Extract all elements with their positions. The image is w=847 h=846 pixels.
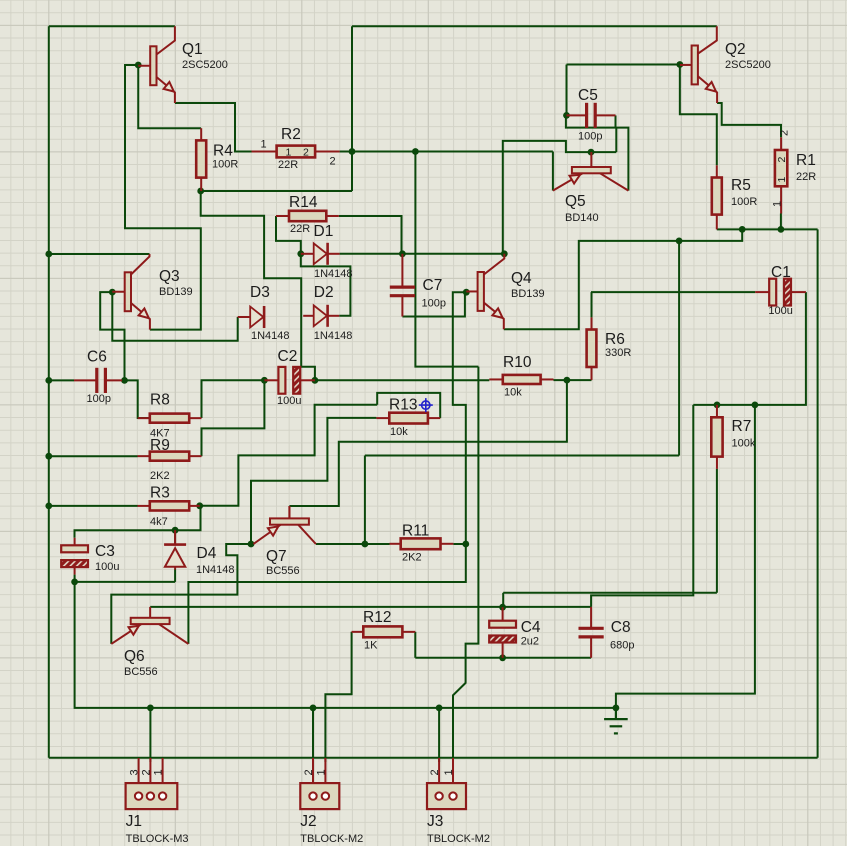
resistor R7 body bbox=[711, 417, 722, 456]
wire right rail bbox=[817, 229, 819, 757]
svg-text:R5: R5 bbox=[731, 177, 751, 194]
wire C1-right down bbox=[755, 292, 806, 405]
connector J2 pin 1 circle bbox=[322, 792, 329, 799]
diode D2 pin2 bbox=[328, 315, 340, 317]
svg-text:Q3: Q3 bbox=[159, 268, 180, 285]
node C1 right bbox=[752, 402, 759, 409]
wire top rail right bbox=[352, 25, 717, 27]
resistor R14 pin2 bbox=[326, 215, 339, 217]
svg-text:TBLOCK-M3: TBLOCK-M3 bbox=[126, 833, 189, 845]
capacitor C1 pin1 bbox=[755, 291, 769, 293]
transistor Q4 collector lead bbox=[484, 254, 504, 275]
svg-text:R10: R10 bbox=[503, 354, 532, 371]
resistor R11 pin2 bbox=[441, 543, 454, 545]
wire output to Q4-emitter bbox=[504, 229, 742, 329]
svg-text:TBLOCK-M2: TBLOCK-M2 bbox=[427, 833, 490, 845]
node rail Q3 bbox=[45, 251, 52, 258]
svg-text:1: 1 bbox=[153, 769, 165, 775]
svg-text:2u2: 2u2 bbox=[521, 636, 539, 648]
wire Q7-emitter stair to R13-left bbox=[251, 418, 376, 544]
wire R13-right loop bbox=[377, 393, 440, 418]
wire L3 right R7-bottom bbox=[503, 592, 717, 594]
capacitor C8 pin1 bbox=[590, 607, 592, 628]
connector J3 pin 1 circle bbox=[449, 792, 456, 799]
svg-text:BD139: BD139 bbox=[159, 286, 193, 298]
diode D4 pin2 bbox=[174, 567, 176, 570]
wire R4-bottom to x352 bbox=[201, 190, 352, 192]
transistor Q5 emitter lead bbox=[553, 173, 583, 190]
wire V2 to J3-pin1 bbox=[453, 367, 478, 758]
component origin marker R13 bbox=[419, 398, 433, 412]
node C5 left bbox=[563, 112, 570, 119]
svg-text:Q6: Q6 bbox=[124, 648, 145, 665]
resistor R5 pin2 bbox=[716, 215, 718, 230]
svg-text:100u: 100u bbox=[95, 561, 119, 573]
capacitor C4 pin2 bbox=[502, 643, 504, 658]
diode D2 body bbox=[314, 305, 327, 326]
svg-text:100R: 100R bbox=[212, 159, 238, 171]
svg-text:D3: D3 bbox=[250, 284, 270, 301]
svg-text:Q4: Q4 bbox=[511, 270, 532, 287]
svg-text:100u: 100u bbox=[768, 305, 792, 317]
svg-text:Q5: Q5 bbox=[565, 193, 586, 210]
wire R14-right to D1-line bbox=[339, 216, 402, 254]
node rail R9 bbox=[45, 453, 52, 460]
transistor Q1 collector lead bbox=[157, 26, 175, 54]
capacitor C7 pin2 bbox=[401, 296, 403, 317]
svg-text:100R: 100R bbox=[731, 196, 757, 208]
transistor Q6 emitter lead bbox=[111, 624, 141, 644]
wire C2-left to R9-right bbox=[202, 380, 265, 456]
transistor Q3 body bar bbox=[125, 272, 131, 311]
resistor R14 pin1 bbox=[276, 215, 289, 217]
svg-text:Q7: Q7 bbox=[266, 548, 287, 565]
svg-text:BD139: BD139 bbox=[511, 288, 545, 300]
svg-text:C5: C5 bbox=[578, 87, 598, 104]
wire output rail top bbox=[717, 228, 818, 230]
wire Q7-base riser bbox=[288, 506, 290, 518]
resistor R2 pin1 bbox=[252, 151, 277, 153]
diode D1 pin2 bbox=[328, 253, 340, 255]
svg-text:2K2: 2K2 bbox=[150, 470, 170, 482]
svg-text:2K2: 2K2 bbox=[402, 552, 422, 564]
wire C5-left riser bbox=[566, 65, 568, 116]
transistor Q3 emitter arrow bbox=[139, 309, 149, 319]
diode D3 body bbox=[250, 307, 263, 328]
resistor R11 pin1 bbox=[390, 543, 401, 545]
capacitor C2 positive plate bbox=[278, 367, 285, 394]
svg-text:C3: C3 bbox=[95, 543, 115, 560]
svg-text:2SC5200: 2SC5200 bbox=[182, 59, 228, 71]
wire gnd horiz R7C1 bbox=[693, 404, 755, 406]
wire C5 bypass loop bbox=[566, 115, 629, 190]
resistor R1 pin1 bbox=[780, 137, 782, 150]
svg-text:J2: J2 bbox=[300, 813, 316, 830]
svg-text:22R: 22R bbox=[278, 159, 298, 171]
connector J2 pin 2 stub bbox=[312, 758, 314, 783]
svg-text:TBLOCK-M2: TBLOCK-M2 bbox=[300, 833, 363, 845]
node R2 right bbox=[349, 148, 356, 155]
capacitor C1 pin2 bbox=[791, 291, 806, 293]
wire C6-right to R8 bbox=[125, 380, 150, 418]
wire J3-pin2 riser bbox=[438, 708, 440, 762]
wire R2-right to Q5-emitter bbox=[340, 151, 553, 153]
transistor Q1 body bar bbox=[150, 46, 156, 85]
node C2 right bbox=[312, 377, 319, 384]
capacitor C8 plates bbox=[579, 628, 604, 637]
capacitor C5 pin1 bbox=[567, 114, 587, 116]
wire C6-left stub bbox=[49, 379, 74, 381]
svg-text:680p: 680p bbox=[610, 640, 634, 652]
wire R4-junction to D-chain bbox=[201, 191, 315, 380]
resistor R5 pin1 bbox=[716, 165, 718, 177]
resistor R2 body bbox=[277, 146, 316, 158]
node C4 bottom bbox=[499, 654, 506, 661]
resistor R6 body bbox=[587, 330, 597, 368]
node Q1 base bbox=[135, 62, 142, 69]
transistor Q2 emitter lead bbox=[698, 76, 717, 103]
capacitor C1 negative plate bbox=[784, 279, 791, 306]
node C6 left bbox=[45, 377, 52, 384]
transistor Q1 emitter lead bbox=[157, 77, 175, 103]
node D1 anode bbox=[297, 250, 304, 257]
node ground rail bbox=[613, 705, 620, 712]
svg-text:C4: C4 bbox=[521, 619, 541, 636]
wire D1 output line bbox=[340, 253, 505, 255]
capacitor C2 negative plate bbox=[293, 367, 300, 394]
node Q4 base bbox=[463, 289, 470, 296]
svg-text:22R: 22R bbox=[290, 223, 310, 235]
wire Q1-emitter to R2 bbox=[175, 103, 252, 152]
resistor R1 pin2 bbox=[780, 186, 782, 213]
connector J1 pin 3 circle bbox=[135, 792, 142, 799]
resistor R12 pin1 bbox=[352, 631, 364, 633]
resistor R4 pin1 bbox=[200, 128, 202, 140]
wire C1-left line bbox=[591, 291, 755, 293]
svg-text:100p: 100p bbox=[422, 298, 446, 310]
transistor Q7 collector lead bbox=[298, 525, 316, 544]
wire R8-right to C2-left bbox=[202, 380, 265, 418]
resistor R3 pin2 bbox=[189, 505, 200, 507]
svg-text:1K: 1K bbox=[364, 640, 378, 652]
svg-text:C6: C6 bbox=[87, 349, 107, 366]
capacitor C7 plates bbox=[390, 287, 415, 296]
wire J3-pin1 lower bbox=[452, 758, 454, 762]
wire C1-right to gnd rail bbox=[616, 405, 755, 708]
wire Q5-base chain bbox=[503, 141, 617, 254]
wire C5 to Q2-base bbox=[567, 64, 680, 66]
wire C4 bottom line bbox=[415, 657, 591, 659]
svg-text:330R: 330R bbox=[605, 347, 631, 359]
svg-text:D4: D4 bbox=[197, 545, 217, 562]
wire C2-right to R10 bbox=[315, 379, 489, 381]
transistor Q3 collector lead bbox=[131, 254, 150, 275]
wire top rail left bbox=[49, 25, 175, 27]
transistor Q2 collector lead bbox=[698, 26, 717, 53]
capacitor C4 positive plate bbox=[489, 621, 516, 628]
wire Q1-base to Q3-emitter bbox=[125, 65, 201, 330]
wire D4-top stub bbox=[174, 530, 176, 544]
node Q2 base bbox=[676, 61, 683, 68]
resistor R6 pin2 bbox=[591, 367, 593, 380]
svg-text:R12: R12 bbox=[363, 609, 391, 626]
transistor Q4 emitter arrow bbox=[492, 308, 502, 318]
wire R3-right to R13 loop bbox=[200, 405, 378, 506]
svg-text:R8: R8 bbox=[150, 392, 170, 409]
svg-text:2: 2 bbox=[429, 769, 441, 775]
transistor Q3 base pin bbox=[112, 291, 124, 293]
diode D3 pin2 bbox=[263, 316, 265, 318]
transistor Q4 body bar bbox=[478, 272, 484, 311]
svg-text:1: 1 bbox=[776, 177, 788, 183]
transistor Q2 base pin bbox=[680, 64, 692, 66]
resistor R4 pin2 bbox=[200, 178, 202, 191]
connector J1 pin 2 circle bbox=[147, 792, 154, 799]
svg-text:100u: 100u bbox=[277, 395, 301, 407]
connector J2 body bbox=[300, 783, 339, 809]
transistor Q4 base pin bbox=[466, 290, 477, 292]
resistor R8 pin2 bbox=[189, 417, 201, 419]
resistor R5 body bbox=[712, 178, 722, 215]
node R6 bottom bbox=[564, 377, 571, 384]
capacitor C3 negative plate bbox=[61, 560, 88, 567]
connector J2 pin 2 circle bbox=[309, 792, 316, 799]
wire R12-left to J2-pin1 bbox=[325, 632, 351, 762]
wire R11-right link bbox=[453, 543, 465, 545]
transistor Q5 base pin bbox=[590, 152, 592, 167]
wire L4 Q6-base line bbox=[150, 606, 591, 608]
diode D1 pin1 bbox=[301, 253, 314, 255]
resistor R8 body bbox=[150, 414, 189, 423]
node R7 top bbox=[714, 402, 721, 409]
wire R1-bottom bbox=[780, 214, 782, 230]
svg-text:BC556: BC556 bbox=[266, 565, 300, 577]
wire D4-bottom stub bbox=[174, 570, 176, 582]
wire C3 bottom line bbox=[75, 581, 176, 583]
wire R14-left to D1 bbox=[276, 216, 301, 254]
wire R12-right to C4-line bbox=[414, 632, 416, 658]
wire Q3-base loop bbox=[100, 292, 124, 380]
transistor Q7 emitter arrow bbox=[268, 526, 278, 535]
diode D1 cathode bar bbox=[326, 243, 329, 265]
wire R6-top riser bbox=[591, 292, 593, 317]
transistor Q6 base pin bbox=[149, 607, 151, 618]
wire D1-anode to D2-cathode bbox=[301, 254, 351, 316]
wire C8-top riser bbox=[591, 405, 693, 607]
diode D2 pin1 bbox=[303, 315, 314, 317]
svg-text:2SC5200: 2SC5200 bbox=[725, 59, 771, 71]
node C7 top bbox=[399, 250, 406, 257]
resistor R3 body bbox=[150, 501, 189, 510]
wire C4-top riser bbox=[502, 593, 504, 607]
svg-text:BC556: BC556 bbox=[124, 666, 158, 678]
transistor Q5 body bar bbox=[572, 167, 611, 173]
wire C3-bottom drop bbox=[74, 575, 76, 582]
diode D4 cathode bar bbox=[164, 543, 186, 546]
resistor R7 pin2 bbox=[716, 457, 718, 469]
diode D4 pin1 bbox=[174, 530, 176, 544]
resistor R8 pin1 bbox=[138, 417, 150, 419]
capacitor C3 pin1 bbox=[74, 538, 76, 546]
capacitor C6 pin1 bbox=[74, 379, 97, 381]
wire Q1-base to R4-top bbox=[138, 65, 201, 128]
node J1 pin2 bbox=[147, 705, 154, 712]
capacitor C1 positive plate bbox=[769, 279, 776, 306]
svg-text:C8: C8 bbox=[611, 619, 631, 636]
transistor Q3 emitter lead bbox=[131, 303, 150, 330]
connector J2 pin 1 stub bbox=[324, 758, 326, 783]
svg-text:100p: 100p bbox=[578, 131, 602, 143]
resistor R13 pin1 bbox=[376, 417, 389, 419]
capacitor C7 pin1 bbox=[401, 254, 403, 287]
resistor R10 body bbox=[503, 375, 541, 384]
wire left rail bbox=[48, 26, 50, 758]
transistor Q6 emitter arrow bbox=[129, 626, 139, 635]
node output mid bbox=[676, 238, 683, 245]
transistor Q4 emitter lead bbox=[484, 303, 504, 330]
node R5 R1 a bbox=[739, 226, 746, 233]
wire Q7-collector to R11 bbox=[316, 543, 390, 545]
svg-text:1N4148: 1N4148 bbox=[314, 330, 353, 342]
wire Q6-emitter line bbox=[111, 544, 251, 644]
connector J1 body bbox=[126, 783, 178, 809]
diode D2 cathode bar bbox=[326, 305, 329, 327]
wire Q2-base to R5 bbox=[680, 65, 717, 166]
wire R3 rail stub bbox=[49, 505, 138, 507]
node C4 top bbox=[499, 604, 506, 611]
connector J3 pin 2 stub bbox=[438, 758, 440, 783]
resistor R12 body bbox=[363, 626, 402, 637]
wire C3 to gnd rail bbox=[75, 582, 616, 708]
capacitor C6 plates bbox=[97, 368, 106, 393]
node R4 bottom bbox=[197, 188, 204, 195]
svg-text:4k7: 4k7 bbox=[150, 516, 168, 528]
transistor Q1 emitter arrow bbox=[164, 82, 174, 92]
wire Q6-collector riser bbox=[188, 544, 465, 644]
svg-text:R2: R2 bbox=[281, 126, 301, 143]
wire C7-bottom to Q4-base bbox=[402, 292, 465, 316]
svg-text:10k: 10k bbox=[390, 426, 408, 438]
connector J3 pin 1 stub bbox=[452, 758, 454, 783]
transistor Q1 base pin bbox=[138, 65, 150, 67]
svg-text:R3: R3 bbox=[150, 485, 170, 502]
diode D4 body bbox=[165, 548, 185, 567]
transistor Q7 base pin bbox=[288, 506, 290, 518]
ground symbol bbox=[604, 708, 628, 734]
svg-text:2: 2 bbox=[330, 156, 336, 168]
resistor R9 pin1 bbox=[138, 455, 150, 457]
resistor R9 body bbox=[150, 452, 189, 461]
capacitor C3 pin2 bbox=[74, 567, 76, 575]
capacitor C8 pin2 bbox=[590, 637, 592, 658]
svg-text:R14: R14 bbox=[289, 194, 318, 211]
node C6 right bbox=[121, 377, 128, 384]
svg-text:100p: 100p bbox=[87, 393, 111, 405]
resistor R2 pin2 bbox=[315, 151, 340, 153]
resistor R6 pin1 bbox=[591, 317, 593, 329]
resistor R7 pin1 bbox=[716, 405, 718, 417]
svg-text:1N4148: 1N4148 bbox=[196, 564, 235, 576]
wire Q3-collector line bbox=[49, 253, 150, 255]
node J3 pin2 bbox=[436, 705, 443, 712]
svg-text:1: 1 bbox=[772, 201, 784, 207]
wire J2-pin2 riser bbox=[312, 708, 314, 762]
node Q4 collector bbox=[501, 250, 508, 257]
wire output drop bbox=[678, 241, 680, 456]
svg-text:Q2: Q2 bbox=[725, 41, 746, 58]
wire C3-top line bbox=[75, 506, 201, 538]
transistor Q6 body bar bbox=[131, 618, 170, 624]
node output feed bbox=[412, 148, 419, 155]
resistor R14 body bbox=[289, 211, 326, 221]
resistor R13 pin2 bbox=[428, 417, 440, 419]
svg-text:1: 1 bbox=[286, 147, 292, 159]
resistor R9 pin2 bbox=[189, 455, 201, 457]
node R11 right bbox=[462, 541, 469, 548]
svg-text:R1: R1 bbox=[796, 152, 816, 169]
wire R6-bottom to Q7-base bbox=[289, 380, 567, 506]
svg-text:R13: R13 bbox=[389, 397, 417, 414]
wire J1-pin2 riser bbox=[149, 708, 151, 762]
capacitor C5 pin2 bbox=[595, 114, 615, 116]
svg-text:D1: D1 bbox=[314, 223, 334, 240]
node Q7 collector bbox=[362, 541, 369, 548]
capacitor C2 pin1 bbox=[264, 379, 278, 381]
wire Q7-collector riser bbox=[364, 456, 366, 545]
resistor R12 pin2 bbox=[402, 631, 415, 633]
wire net R2-right vertical bbox=[351, 26, 353, 191]
resistor R11 body bbox=[401, 538, 441, 549]
svg-text:C2: C2 bbox=[278, 348, 298, 365]
wire R11-dot to Q4-base bbox=[453, 292, 467, 544]
svg-text:2: 2 bbox=[303, 147, 309, 159]
wire R10-right to R6 bbox=[554, 379, 592, 381]
resistor R3 pin1 bbox=[138, 505, 150, 507]
node D4 top bbox=[172, 527, 179, 534]
wire Q5-emitter drop bbox=[552, 152, 554, 191]
svg-text:1: 1 bbox=[443, 769, 455, 775]
connector J1 pin 3 stub bbox=[138, 758, 140, 783]
wire Q3-base to D3 bbox=[112, 292, 237, 341]
capacitor C4 pin1 bbox=[502, 607, 504, 621]
svg-text:R6: R6 bbox=[605, 331, 625, 348]
wire C5-right pin drop bbox=[615, 115, 617, 127]
transistor Q5 emitter arrow bbox=[570, 175, 581, 184]
capacitor C6 pin2 bbox=[105, 379, 122, 381]
node R5 R1 b bbox=[778, 226, 785, 233]
svg-text:R11: R11 bbox=[402, 523, 429, 540]
svg-text:2: 2 bbox=[776, 157, 788, 163]
svg-text:10k: 10k bbox=[504, 387, 522, 399]
svg-text:C7: C7 bbox=[423, 277, 443, 294]
svg-text:1N4148: 1N4148 bbox=[314, 268, 353, 280]
svg-text:2: 2 bbox=[779, 130, 791, 136]
node rail R3 bbox=[45, 503, 52, 510]
resistor R1 body bbox=[775, 150, 787, 186]
svg-text:2: 2 bbox=[140, 769, 152, 775]
wire bottom rail bbox=[49, 757, 818, 759]
capacitor C4 negative plate bbox=[489, 636, 516, 643]
svg-text:C1: C1 bbox=[771, 264, 791, 281]
resistor R10 pin1 bbox=[489, 378, 503, 380]
capacitor C5 plates bbox=[587, 103, 596, 128]
svg-text:1: 1 bbox=[315, 769, 327, 775]
node Q7 emitter bbox=[248, 541, 255, 548]
node C3 bottom bbox=[71, 579, 78, 586]
svg-text:D2: D2 bbox=[314, 284, 334, 301]
diode D3 cathode bar bbox=[263, 306, 266, 328]
wire R7-bottom drop bbox=[716, 469, 718, 593]
